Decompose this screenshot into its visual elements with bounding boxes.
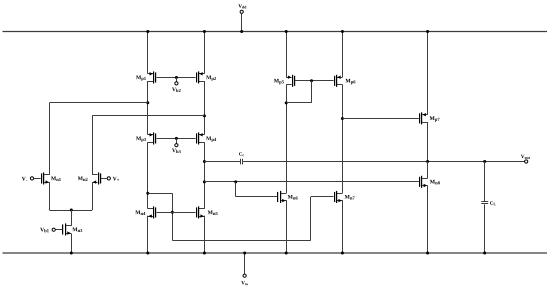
node Mn5 source on rail	[203, 252, 206, 255]
transistor Mn7	[334, 191, 355, 203]
wire node B to Cc left plate	[204, 161, 240, 163]
wire Mn4 gate to Mn5 gate	[157, 212, 196, 214]
wire Mn2 source to tail node	[92, 182, 94, 210]
node Vdd on rail	[240, 30, 243, 33]
node Mp6 drain to Mp7 gate junction	[341, 117, 344, 120]
wire Mp1 gate to Mp2 gate (Vb2 net)	[157, 77, 196, 79]
wire tail node to Mn3 drain	[71, 210, 73, 226]
power rail VDD (top)	[3, 31, 548, 33]
node Mn8 source on rail	[426, 252, 429, 255]
node Mn6 gate branch junction	[234, 180, 237, 183]
node Mn4 drain diode tap	[146, 192, 149, 195]
transistor Mp1	[136, 71, 156, 83]
wire Mp5 diode connection	[286, 81, 311, 103]
node tail junction	[70, 209, 73, 212]
node B Mp2 drain / feedback to Mn2	[203, 114, 206, 117]
wire Mn4 source to VSS rail	[147, 216, 149, 253]
wire Vdd rail to Mp1 source	[147, 32, 149, 74]
wire Mp7 drain to output node	[427, 122, 429, 162]
node output to CL junction	[483, 160, 486, 163]
wire Mp5 drain to Mn6 drain	[286, 85, 288, 194]
wire mirror bus to Mn7 gate	[172, 197, 333, 241]
transistor Mn3	[62, 223, 82, 235]
node Vb2 junction	[175, 76, 178, 79]
wire Mp2 drain to Mp4 source	[204, 81, 206, 135]
terminal Vdd	[238, 4, 246, 31]
transistor Mp3	[136, 132, 156, 144]
wire Mn5 source to VSS rail	[204, 216, 206, 253]
wire tail node horizontal	[50, 210, 93, 212]
node Mp6 source on rail	[341, 30, 344, 33]
terminal Vb3	[172, 138, 181, 153]
transistor Mp2	[196, 71, 216, 83]
node Mn6 source on rail	[285, 252, 288, 255]
transistor Mn6	[277, 191, 298, 203]
wire Mn6 source to VSS rail	[286, 200, 288, 253]
node A Mp1 drain / feedback to Mn1	[146, 101, 149, 104]
node Vss on rail	[243, 252, 246, 255]
wire Mn1 source to tail node	[49, 182, 51, 210]
transistor Mn1	[41, 172, 61, 184]
node Mp5 gate junction	[310, 79, 313, 82]
transistor Mp5	[274, 75, 295, 87]
wire Cc right plate to output net	[243, 161, 524, 163]
node Mp5 drain diode tap	[285, 101, 288, 104]
wire node A to Mn1 drain	[50, 103, 148, 175]
node first-stage output to Mn8 gate net	[203, 180, 206, 183]
wire Mp6 drain to Mp7 gate	[342, 118, 418, 120]
wire Mp5 gate to Mp6 gate	[295, 80, 334, 82]
node Mn4 source on rail	[146, 252, 149, 255]
capacitor Cc	[239, 152, 244, 164]
wire Mp3 drain to Mn4 drain	[147, 142, 149, 209]
wire node B to Mn2 drain	[92, 116, 204, 175]
terminal V- input	[22, 177, 41, 181]
node Mn7 source on rail	[341, 252, 344, 255]
node CL on rail	[483, 252, 486, 255]
transistor Mp4	[196, 132, 216, 144]
transistor Mn5	[196, 206, 218, 218]
node first-stage output to Cc	[203, 160, 206, 163]
terminal Vb2	[172, 78, 181, 93]
terminal Vss	[241, 253, 248, 285]
wire Vdd rail to Mp6 source	[342, 32, 344, 78]
wire Mp6 drain to Mn7 drain	[342, 85, 344, 194]
wire output node down to CL	[484, 162, 486, 202]
wire Vdd rail to Mp2 source	[204, 32, 206, 74]
node Vb3 junction	[175, 137, 178, 140]
node output junction at Mp7/Mn8	[426, 160, 429, 163]
wire CL to VSS rail	[484, 204, 486, 253]
power rail VSS (bottom)	[3, 252, 548, 254]
wire Mp4 drain to Mn5 drain	[204, 142, 206, 209]
node Mn4 gate junction	[171, 211, 174, 214]
terminal Vb1	[40, 228, 62, 233]
wire branch to Mn6 gate	[236, 182, 278, 197]
capacitor CL	[481, 201, 496, 205]
node Mp1 source on rail	[146, 30, 149, 33]
wire output node to Mn8 drain	[427, 162, 429, 179]
wire Mn3 source to VSS rail	[71, 234, 73, 253]
node Mn3 source on rail	[70, 252, 73, 255]
terminal Vout	[521, 155, 530, 163]
transistor Mn2	[78, 172, 101, 184]
wire Mn7 source to VSS rail	[342, 200, 344, 253]
node Mp5 source on rail	[285, 30, 288, 33]
terminal V+ input	[101, 177, 119, 181]
transistor Mn4	[135, 206, 156, 218]
wire node B to Mn8 gate	[204, 181, 418, 183]
wire Mn4 diode connection	[148, 193, 173, 240]
node Mp2 source on rail	[203, 30, 206, 33]
transistor Mp7	[419, 112, 440, 124]
transistor Mp6	[334, 75, 355, 87]
transistor Mn8	[419, 176, 440, 188]
wire Mn8 source to VSS rail	[427, 186, 429, 253]
wire Vdd rail to Mp7 source	[427, 32, 429, 115]
wire Vdd rail to Mp5 source	[286, 32, 288, 78]
wire Mp1 drain to Mp3 source	[147, 81, 149, 135]
node Mp7 source on rail	[426, 30, 429, 33]
wire Mp3 gate to Mp4 gate (Vb3 net)	[157, 138, 196, 140]
